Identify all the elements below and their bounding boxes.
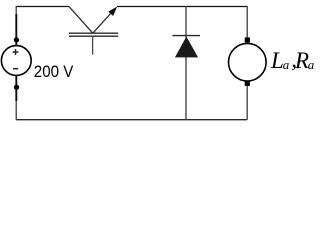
transistor Q1 right diagonal (emitter lead): [93, 12, 112, 33]
wire left vertical emphasis (thick dark segment): [15, 14, 17, 46]
voltage source V1 circle: [1, 46, 31, 76]
wire left vertical (corner to source top): [15, 6, 17, 46]
wire right vertical bottom: [246, 86, 248, 120]
wire top rail left segment: [16, 6, 69, 8]
node junction dot source bottom: [14, 85, 19, 90]
wire right vertical top: [246, 6, 248, 39]
svg-text:L: L: [270, 48, 284, 73]
transistor Q1 gate stub: [92, 36, 94, 54]
wire bottom rail: [16, 119, 247, 121]
wire diode branch vertical: [185, 6, 187, 120]
transistor Q1 arrowhead: [108, 7, 117, 17]
wire top rail right segment: [117, 6, 247, 8]
diode D1 anode triangle: [175, 37, 198, 58]
svg-text:200 V: 200 V: [34, 62, 74, 81]
motor M terminal square bottom: [245, 81, 250, 86]
transistor Q1 lower bar (gate plate): [69, 35, 118, 37]
svg-text:R: R: [294, 48, 309, 73]
motor M terminal square top: [245, 37, 250, 42]
wire left vertical bottom emphasis (thick dark segment): [15, 76, 17, 101]
motor M armature circle: [229, 43, 267, 81]
voltage source plus sign: [13, 49, 19, 55]
transistor Q1 left diagonal (collector lead): [69, 7, 93, 34]
node junction dot source top: [14, 37, 19, 42]
diode D1 cathode bar: [172, 35, 200, 37]
svg-text:a: a: [283, 57, 290, 72]
wire left vertical bottom: [15, 75, 17, 119]
transistor Q1 upper bar: [69, 32, 118, 34]
voltage source minus sign: [13, 68, 18, 70]
svg-text:a: a: [308, 57, 315, 72]
